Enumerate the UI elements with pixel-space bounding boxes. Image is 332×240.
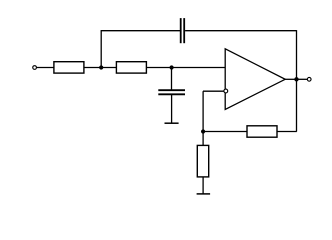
ground symbol under C2 (165, 122, 179, 124)
resistor R1 (54, 62, 84, 73)
resistor R3 (247, 126, 277, 137)
wire R3 to output rail (277, 131, 297, 133)
wire node A up to top rail (100, 31, 102, 68)
resistor R4 (197, 145, 208, 177)
capacitor C2 (158, 90, 185, 94)
wire R1 to R2 through node A (84, 67, 117, 69)
wire C2 to ground (171, 95, 173, 123)
wire node B down to C2 (171, 68, 173, 90)
wire inverting input left (203, 90, 224, 92)
resistor R2 (116, 62, 146, 73)
wire node C down to R4 (202, 132, 204, 146)
node C junction dot (201, 129, 205, 133)
wire R2 to op-amp input through node B (146, 67, 225, 69)
node A junction dot (99, 65, 103, 69)
wire op-amp output to rail (285, 78, 297, 80)
output terminal (307, 77, 311, 81)
wire R4 to ground (202, 177, 204, 194)
right vertical wire (output rail) (296, 30, 298, 131)
op-amp inverting input circle (224, 89, 228, 93)
ground symbol under R4 (197, 193, 211, 195)
capacitor C1 (181, 18, 185, 43)
op-amp U1 (225, 49, 285, 110)
input terminal (33, 66, 37, 70)
node D junction dot (294, 77, 298, 81)
wire to output terminal (297, 78, 308, 80)
top wire left of C1 (101, 30, 180, 32)
wire node C to R3 (203, 131, 247, 133)
node B junction dot (170, 65, 174, 69)
wire down to node C (202, 91, 204, 131)
top wire right of C1 (185, 30, 296, 32)
wire input to R1 (37, 67, 54, 69)
